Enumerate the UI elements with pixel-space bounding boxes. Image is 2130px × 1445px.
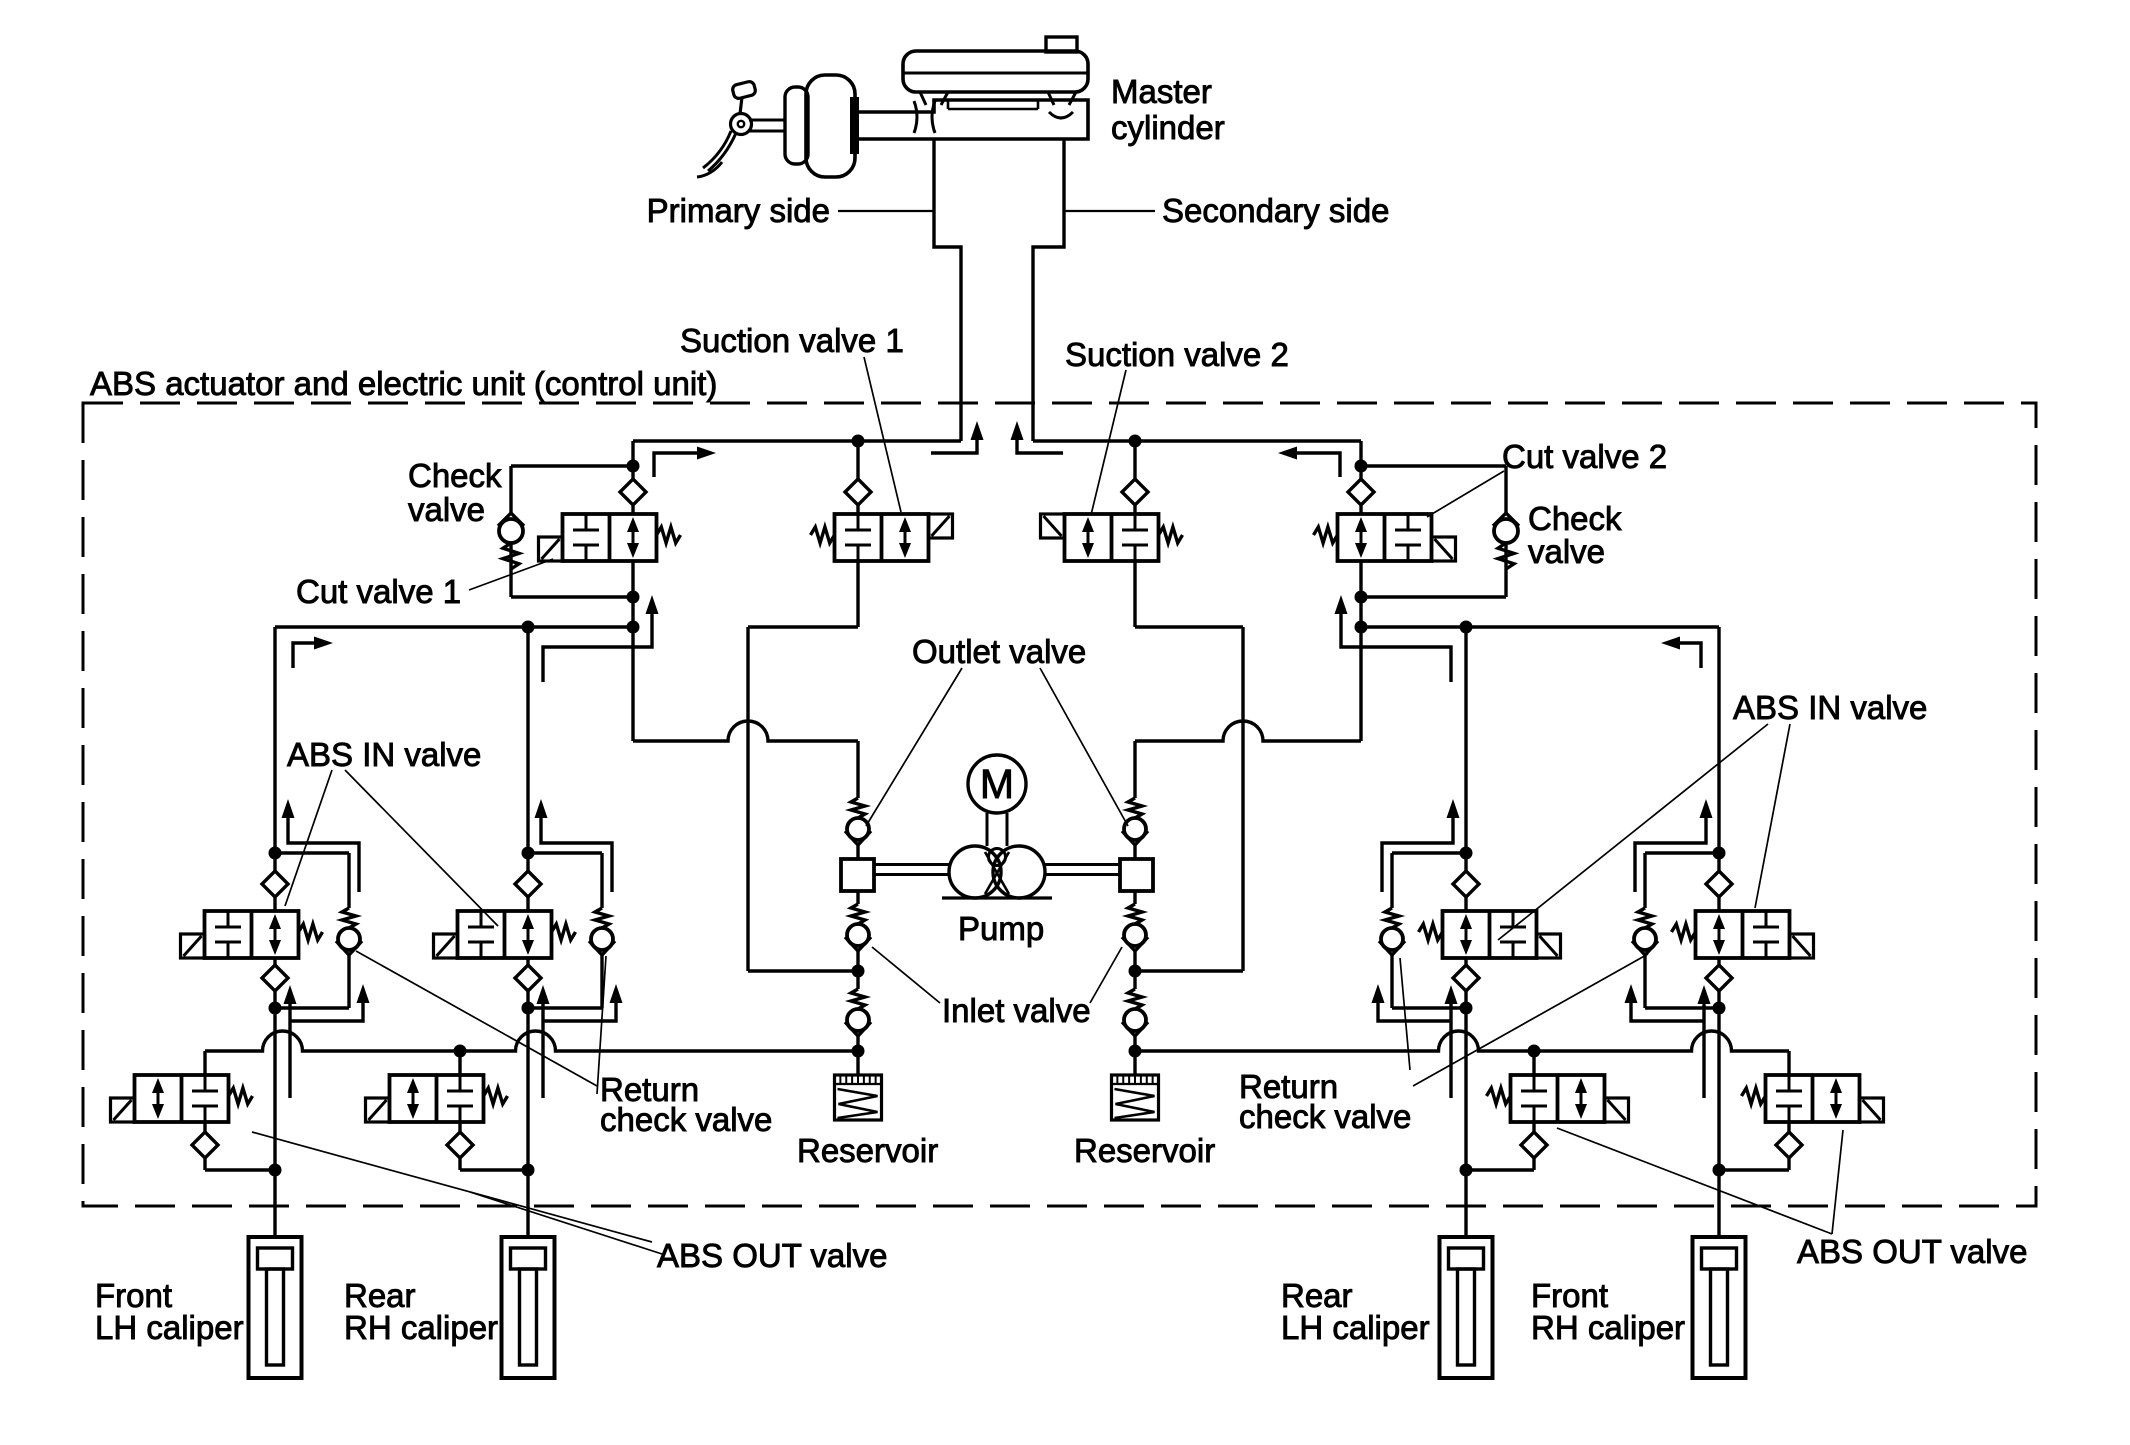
svg-text:Outlet valve: Outlet valve <box>912 633 1086 670</box>
svg-text:RH caliper: RH caliper <box>1531 1309 1685 1346</box>
svg-text:Inlet valve: Inlet valve <box>942 992 1091 1029</box>
svg-text:LH caliper: LH caliper <box>1281 1309 1430 1346</box>
svg-text:Check: Check <box>408 457 502 494</box>
svg-text:Suction valve 2: Suction valve 2 <box>1065 336 1289 373</box>
svg-text:ABS IN valve: ABS IN valve <box>287 736 481 773</box>
svg-text:M: M <box>980 761 1014 807</box>
svg-text:Pump: Pump <box>958 910 1044 947</box>
svg-text:cylinder: cylinder <box>1111 109 1225 146</box>
svg-text:Reservoir: Reservoir <box>1074 1132 1215 1169</box>
svg-text:RH caliper: RH caliper <box>344 1309 498 1346</box>
svg-text:Primary side: Primary side <box>647 192 830 229</box>
svg-text:LH caliper: LH caliper <box>95 1309 244 1346</box>
svg-text:ABS IN valve: ABS IN valve <box>1733 689 1927 726</box>
svg-text:Check: Check <box>1528 500 1622 537</box>
svg-text:ABS actuator and electric unit: ABS actuator and electric unit (control … <box>90 365 717 402</box>
svg-text:check valve: check valve <box>1239 1098 1411 1135</box>
svg-text:valve: valve <box>408 491 485 528</box>
svg-text:Secondary side: Secondary side <box>1162 192 1389 229</box>
svg-text:check valve: check valve <box>600 1101 772 1138</box>
svg-text:Master: Master <box>1111 73 1212 110</box>
svg-text:Cut valve 2: Cut valve 2 <box>1502 438 1667 475</box>
svg-text:ABS OUT valve: ABS OUT valve <box>1797 1233 2027 1270</box>
svg-text:ABS OUT valve: ABS OUT valve <box>657 1237 887 1274</box>
svg-text:Reservoir: Reservoir <box>797 1132 938 1169</box>
svg-text:Suction valve 1: Suction valve 1 <box>680 322 904 359</box>
svg-text:valve: valve <box>1528 533 1605 570</box>
svg-text:Cut valve 1: Cut valve 1 <box>296 573 461 610</box>
